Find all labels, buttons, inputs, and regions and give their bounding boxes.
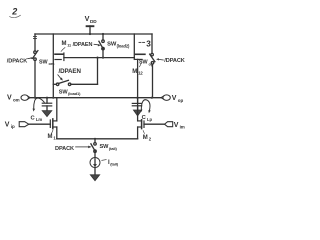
svg-text:(load1): (load1)	[68, 91, 81, 96]
wire V_im to M2 gate	[144, 123, 165, 125]
label DPACK with arrow	[55, 146, 74, 152]
svg-text:DD: DD	[90, 19, 97, 24]
svg-text:3: 3	[146, 39, 151, 48]
label /DPACK right with arrow	[164, 58, 184, 64]
label SW_tail	[100, 144, 118, 151]
svg-text:M: M	[48, 134, 53, 140]
svg-text:SW: SW	[100, 144, 110, 150]
label /DPACK left with arrow	[7, 59, 27, 65]
svg-text:V: V	[85, 14, 90, 23]
label M12 with leader	[132, 69, 143, 76]
transistor M11	[52, 34, 54, 98]
svg-text:V: V	[7, 95, 12, 102]
port V_ip	[5, 121, 15, 129]
current source I_tail	[90, 158, 100, 168]
capacitor C_Lm	[46, 98, 48, 103]
svg-text:om: om	[13, 97, 20, 102]
transistor M12	[133, 34, 135, 59]
svg-text:/DPACK: /DPACK	[7, 59, 27, 65]
switch SW_load2	[102, 33, 104, 35]
svg-text:DPACK: DPACK	[55, 146, 74, 152]
wire gate line M11-M12	[64, 57, 134, 59]
svg-text:1: 1	[53, 136, 56, 141]
label I_tail with leader	[102, 159, 106, 162]
svg-text:2: 2	[149, 136, 152, 141]
transistor M2	[143, 121, 145, 127]
switch SW_op	[151, 53, 154, 56]
figure number 2	[11, 7, 17, 17]
node dot Vdd-rail	[89, 33, 91, 35]
transistor M1	[49, 120, 51, 127]
label SW_load1	[59, 89, 81, 96]
label /DPAEN middle with arrow	[59, 68, 82, 75]
wire left column lower	[34, 61, 36, 98]
wire right column upper	[151, 34, 153, 53]
svg-text:SW: SW	[107, 42, 117, 48]
svg-text:M: M	[62, 41, 67, 47]
svg-text:/DPAEN: /DPAEN	[59, 68, 82, 75]
switch SW_om	[34, 51, 37, 54]
Vdd terminal bar	[87, 25, 94, 27]
svg-text:Lp: Lp	[147, 117, 152, 122]
node dot tail	[94, 138, 96, 140]
svg-text:11: 11	[67, 43, 71, 47]
wire right column lower	[152, 64, 154, 98]
svg-text:2: 2	[11, 7, 17, 17]
wire SW_load1 to gate line	[71, 83, 98, 85]
wire Vdd to rail	[89, 26, 91, 34]
label SW_om	[39, 59, 55, 66]
svg-text:V: V	[5, 121, 10, 128]
svg-text:V: V	[174, 122, 179, 129]
wire common output node line	[30, 97, 161, 99]
label 3 with dotted leader	[139, 41, 141, 43]
capacitor C_Lp	[137, 98, 139, 104]
ground C_Lm	[42, 111, 52, 117]
svg-text:C: C	[31, 115, 36, 121]
wire V_ip to M1 gate	[29, 123, 51, 125]
svg-text:V: V	[172, 95, 177, 102]
switch SW_load1	[53, 83, 56, 85]
label /DPAEN top with arrow	[73, 42, 93, 48]
svg-text:(load2): (load2)	[117, 43, 130, 48]
port V_om	[21, 95, 28, 101]
label C_Lp with curved leader	[142, 115, 153, 122]
svg-text:(tail): (tail)	[109, 146, 118, 151]
svg-text:ip: ip	[11, 124, 15, 129]
node dot gate-SWload1 riser	[96, 57, 98, 59]
svg-text:Lm: Lm	[36, 117, 42, 122]
label M11 with leader	[62, 41, 72, 48]
label SW_load2	[107, 42, 130, 49]
svg-text:SW: SW	[59, 89, 69, 95]
label SW_op	[139, 60, 154, 67]
wire top Vdd rail	[35, 33, 152, 35]
Vdd supply label	[85, 14, 98, 24]
tick marks below left rail corner	[33, 36, 36, 38]
port V_im	[174, 122, 185, 130]
svg-text:12: 12	[138, 70, 143, 75]
node dot gate-SWload2	[102, 57, 104, 59]
svg-text:im: im	[180, 125, 185, 130]
ground tail	[90, 175, 99, 181]
switch SW_tail	[94, 139, 96, 143]
wire left column upper	[34, 34, 36, 51]
svg-text:/DPACK: /DPACK	[164, 58, 184, 64]
label M2	[143, 135, 152, 142]
ground C_Lp	[133, 110, 141, 116]
label C_Lm with curved leader	[31, 115, 43, 122]
svg-text:op: op	[178, 98, 184, 103]
svg-text:M: M	[143, 135, 148, 141]
label M1	[48, 134, 57, 141]
svg-text:(tail): (tail)	[110, 161, 119, 166]
port V_op	[161, 96, 164, 99]
svg-text:SW: SW	[39, 59, 48, 65]
svg-text:M: M	[132, 69, 137, 75]
svg-text:SW: SW	[139, 60, 148, 66]
svg-text:/DPAEN: /DPAEN	[73, 42, 93, 48]
wire common source line	[57, 138, 138, 140]
